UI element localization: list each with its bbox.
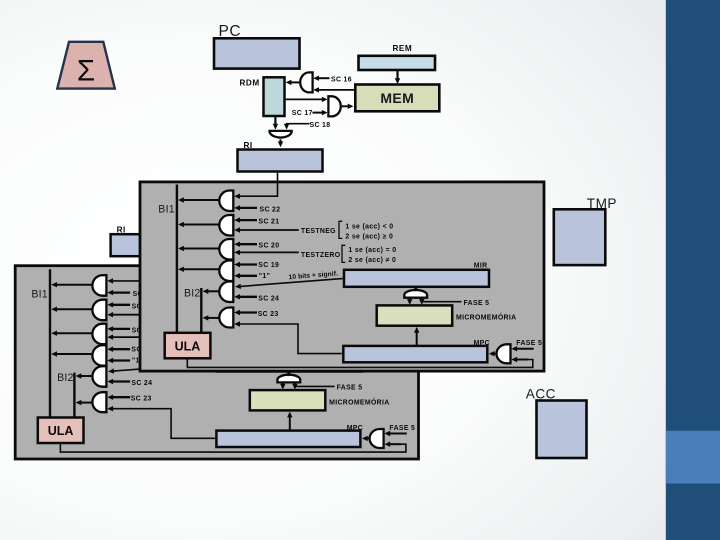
memory MICROMEMORIA bbox=[377, 305, 453, 325]
sigma trapezoid bbox=[57, 42, 115, 89]
signal SC 23 bbox=[240, 311, 258, 313]
bus BI1 bbox=[49, 269, 51, 418]
wire G1 output to BI1 bbox=[56, 284, 93, 286]
wire G3 output to BI1 bbox=[183, 248, 220, 250]
wire MPC to G6 bbox=[240, 324, 342, 354]
svg-text:SC 23: SC 23 bbox=[258, 311, 279, 318]
wire ULA output bbox=[60, 443, 406, 452]
gate G1 bbox=[92, 275, 106, 296]
wire RDM down to mux bbox=[274, 116, 276, 125]
signal FASE 5 bottom input bbox=[384, 442, 390, 447]
wire RI to gate G1 bbox=[240, 172, 278, 197]
wire FASE 5 select bbox=[295, 385, 335, 387]
signal SC 21 bbox=[240, 219, 258, 221]
svg-text:MICROMEMÓRIA: MICROMEMÓRIA bbox=[456, 313, 516, 322]
sidebar accent square bbox=[666, 431, 720, 484]
wire mux to micromemoria left bbox=[409, 298, 411, 301]
svg-text:BI2: BI2 bbox=[57, 372, 74, 384]
signal SC 19 bbox=[240, 263, 258, 265]
svg-text:2 se (acc) ≥ 0: 2 se (acc) ≥ 0 bbox=[345, 233, 393, 240]
gate FASE5 MPC bbox=[497, 344, 511, 363]
wire TESTZERO bbox=[240, 251, 299, 253]
wire FASE5 gate to MPC bbox=[367, 437, 370, 439]
wire FASE5 gate to MPC bbox=[494, 353, 497, 355]
svg-text:ULA: ULA bbox=[48, 424, 74, 438]
svg-text:SC 22: SC 22 bbox=[260, 206, 281, 213]
svg-text:SC 24: SC 24 bbox=[258, 295, 279, 302]
signal SC 19 bbox=[113, 348, 131, 350]
back control-unit diagram bbox=[158, 141, 542, 368]
wire G2 output to BI1 bbox=[56, 308, 93, 310]
gate G3 bbox=[219, 239, 233, 260]
signal FASE 5 top bbox=[390, 433, 407, 435]
svg-text:SC 24: SC 24 bbox=[131, 380, 152, 387]
svg-text:ULA: ULA bbox=[175, 339, 201, 353]
back control unit box bbox=[140, 182, 544, 371]
svg-text:BI1: BI1 bbox=[31, 288, 48, 300]
svg-text:SC 16: SC 16 bbox=[331, 76, 352, 83]
wire REM to MEM bbox=[396, 70, 398, 80]
memory MEM bbox=[355, 85, 439, 112]
gate G6 bbox=[92, 392, 106, 412]
gate G4 bbox=[92, 345, 106, 366]
gate G4 bbox=[219, 261, 233, 282]
signal constant 1 bbox=[240, 275, 258, 277]
svg-text:1 se (acc) < 0: 1 se (acc) < 0 bbox=[345, 223, 393, 230]
gate SC17 bbox=[328, 96, 340, 116]
wire MIR to mux bbox=[415, 287, 417, 288]
gate G3 bbox=[92, 324, 106, 345]
svg-text:SC 18: SC 18 bbox=[310, 122, 331, 129]
wire SC17 gate to MEM bbox=[342, 105, 348, 107]
signal FASE 5 bottom input bbox=[511, 357, 517, 362]
wire MEM to SC16 gate bbox=[318, 89, 355, 91]
wire MIR to G5 10 bits bbox=[114, 363, 218, 371]
wire MPC to MICROMEMORIA bbox=[289, 416, 291, 431]
wire TESTNEG bbox=[113, 314, 172, 316]
svg-text:1 se (acc) = 0: 1 se (acc) = 0 bbox=[348, 247, 396, 254]
alu ULA bbox=[165, 333, 211, 359]
right sidebar bbox=[666, 0, 720, 540]
svg-text:"1": "1" bbox=[259, 273, 270, 280]
gate G5 bbox=[219, 282, 233, 303]
signal FASE 5 top bbox=[517, 348, 534, 350]
svg-text:ACC: ACC bbox=[526, 386, 556, 401]
svg-text:FASE 5: FASE 5 bbox=[464, 300, 490, 307]
wire RI to gate G1 bbox=[113, 256, 151, 281]
wire MIR to G5 10 bits bbox=[241, 278, 345, 286]
signal SC 21 bbox=[113, 304, 131, 306]
svg-text:BI2: BI2 bbox=[184, 287, 201, 299]
wire TESTNEG bbox=[240, 229, 299, 231]
svg-text:SC 23: SC 23 bbox=[131, 396, 152, 403]
gate FASE5 MPC bbox=[370, 429, 384, 448]
bus BI2 bbox=[200, 288, 202, 333]
svg-text:Σ: Σ bbox=[77, 55, 95, 88]
wire SC16 gate to RDM bbox=[291, 81, 299, 83]
wire G4 output to BI1 bbox=[183, 268, 220, 270]
signal SC 20 bbox=[113, 328, 131, 330]
wire G1 output to BI1 bbox=[183, 199, 220, 201]
signal SC 20 bbox=[240, 243, 258, 245]
memory MICROMEMORIA bbox=[250, 390, 326, 410]
wire MPC to G6 bbox=[113, 409, 215, 439]
wire G6 output to BI2 bbox=[207, 317, 219, 319]
svg-text:FASE 5: FASE 5 bbox=[516, 340, 542, 347]
wire RDM to SC17 gate bbox=[285, 98, 323, 100]
svg-text:TESTNEG: TESTNEG bbox=[301, 228, 336, 235]
svg-text:MEM: MEM bbox=[380, 90, 414, 106]
front control-unit diagram (partially hidden) bbox=[31, 226, 415, 453]
wire TESTZERO bbox=[113, 336, 172, 338]
wire mux to RI bbox=[280, 139, 282, 142]
wire G3 output to BI1 bbox=[56, 332, 93, 334]
mux below MIR bbox=[277, 375, 300, 383]
mux below MIR bbox=[404, 290, 427, 298]
bus BI1 bbox=[176, 185, 178, 334]
wire G2 output to BI1 bbox=[183, 224, 220, 226]
wire G4 output to BI1 bbox=[56, 353, 93, 355]
wire G6 output to BI2 bbox=[80, 402, 92, 404]
svg-text:SC 20: SC 20 bbox=[259, 243, 280, 250]
mux below RDM bbox=[270, 131, 292, 138]
svg-text:SC 19: SC 19 bbox=[258, 262, 279, 269]
gate G2 bbox=[92, 300, 106, 321]
signal SC 24 bbox=[240, 296, 258, 298]
gate SC16 bbox=[300, 72, 312, 92]
wire mux to micromemoria right bbox=[294, 382, 296, 385]
svg-text:SC 17: SC 17 bbox=[292, 110, 313, 117]
gate G2 bbox=[219, 215, 233, 236]
wire MPC to MICROMEMORIA bbox=[416, 331, 418, 346]
wire G5 output to BI2 bbox=[207, 290, 219, 292]
wire mux to micromemoria right bbox=[421, 298, 423, 301]
gate G6 bbox=[219, 308, 233, 328]
signal SC 23 bbox=[113, 396, 131, 398]
wire MIR to mux bbox=[288, 372, 290, 373]
svg-text:MICROMEMÓRIA: MICROMEMÓRIA bbox=[329, 397, 389, 406]
signal constant 1 bbox=[113, 359, 131, 361]
svg-text:REM: REM bbox=[393, 44, 413, 53]
svg-text:TESTZERO: TESTZERO bbox=[301, 252, 341, 259]
svg-text:FASE 5: FASE 5 bbox=[337, 385, 363, 392]
signal SC 22 bbox=[113, 291, 131, 293]
wire G5 output to BI2 bbox=[80, 375, 92, 377]
svg-text:2 se (acc) ≠ 0: 2 se (acc) ≠ 0 bbox=[348, 257, 396, 264]
svg-text:SC 21: SC 21 bbox=[259, 219, 280, 226]
front control unit box bbox=[15, 266, 418, 459]
wire mux to micromemoria left bbox=[282, 382, 284, 385]
signal SC 16 bbox=[318, 77, 329, 79]
svg-text:FASE 5: FASE 5 bbox=[389, 425, 415, 432]
gate G5 bbox=[92, 366, 106, 387]
wire ULA output bbox=[187, 358, 533, 367]
svg-text:BI1: BI1 bbox=[158, 204, 175, 216]
alu ULA bbox=[38, 418, 84, 444]
bus BI2 bbox=[73, 373, 75, 418]
svg-text:MIR: MIR bbox=[474, 262, 488, 269]
svg-text:RDM: RDM bbox=[240, 78, 260, 87]
signal SC 24 bbox=[113, 380, 131, 382]
gate G1 bbox=[219, 191, 233, 212]
signal SC 22 bbox=[240, 207, 258, 209]
wire FASE 5 select bbox=[422, 301, 462, 303]
